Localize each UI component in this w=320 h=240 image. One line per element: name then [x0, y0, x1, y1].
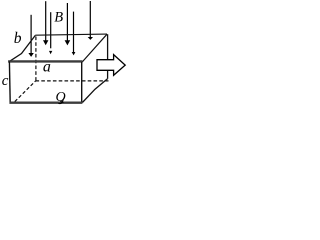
front-bottom edge: [9, 102, 82, 104]
front-left edge: [8, 62, 11, 103]
front-top edge: [8, 60, 82, 62]
field arrow 4: [65, 3, 71, 45]
hidden back-left vertical edge (dashed, BTL to BBL): [35, 37, 37, 81]
field arrow 2: [43, 1, 48, 45]
front-right edge: [81, 62, 83, 102]
svg-text:b: b: [14, 30, 22, 47]
field arrow 1: [28, 15, 33, 57]
Q tail: [58, 99, 63, 103]
back-top edge: [35, 34, 107, 35]
hidden bottom-back edge (dashed, BBL to BBR): [36, 80, 109, 82]
block arrow (velocity, pointing right): [97, 55, 125, 76]
svg-text:c: c: [2, 73, 9, 89]
top-right edge (FTR to BTR): [82, 34, 107, 62]
field arrow 5: [72, 12, 76, 56]
svg-text:B: B: [54, 10, 63, 26]
hidden bottom-left edge (dashed, FBL to BBL): [15, 81, 36, 102]
back-right vertical edge (BTR to BBR): [107, 34, 109, 79]
field arrow 3: [49, 12, 52, 54]
svg-text:a: a: [43, 59, 51, 76]
field arrow 6: [88, 1, 93, 40]
top-left edge b (FTL to BTL): [10, 35, 36, 61]
bottom-right edge (FBR to BBR): [82, 79, 107, 103]
